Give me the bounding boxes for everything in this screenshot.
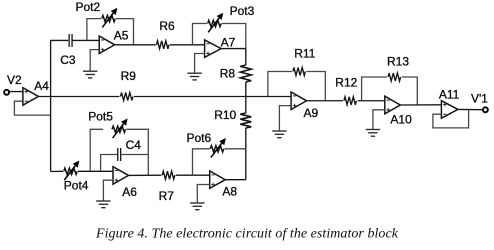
svg-text:Figure 4. The electronic circu: Figure 4. The electronic circuit of the …	[95, 226, 399, 241]
svg-text:Pot5: Pot5	[88, 110, 113, 124]
svg-text:R7: R7	[159, 189, 175, 203]
svg-text:A7: A7	[221, 36, 236, 50]
svg-text:A4: A4	[34, 79, 49, 93]
svg-text:A8: A8	[222, 185, 237, 199]
svg-text:Pot2: Pot2	[76, 0, 101, 14]
svg-text:R12: R12	[335, 76, 357, 90]
svg-text:R11: R11	[294, 47, 315, 61]
svg-text:Pot4: Pot4	[64, 178, 89, 192]
svg-text:C3: C3	[60, 53, 76, 67]
svg-text:R6: R6	[159, 19, 175, 33]
svg-text:V2: V2	[7, 73, 22, 87]
svg-text:Pot6: Pot6	[187, 131, 212, 145]
svg-text:R8: R8	[220, 66, 236, 80]
svg-text:A6: A6	[122, 185, 137, 199]
svg-text:A10: A10	[390, 113, 412, 127]
svg-text:A11: A11	[439, 87, 460, 101]
svg-text:A9: A9	[304, 106, 319, 120]
svg-text:R10: R10	[214, 108, 236, 122]
svg-text:Pot3: Pot3	[230, 4, 255, 18]
svg-text:R13: R13	[387, 54, 409, 68]
svg-text:A5: A5	[114, 29, 129, 43]
svg-text:V'1: V'1	[471, 91, 488, 105]
svg-text:R9: R9	[121, 69, 137, 83]
svg-text:C4: C4	[126, 138, 142, 152]
